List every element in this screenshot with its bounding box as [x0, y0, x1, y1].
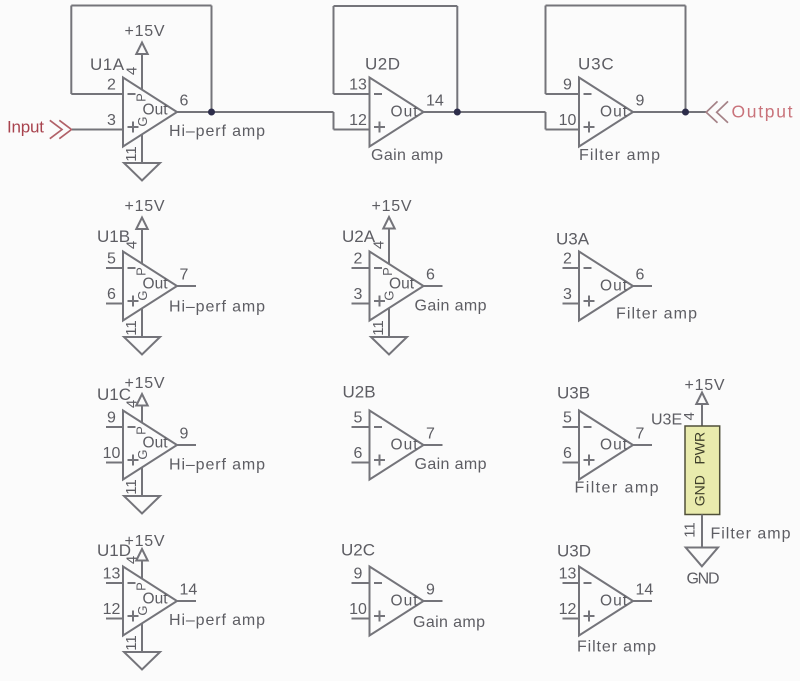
svg-text:7: 7: [180, 267, 189, 284]
svg-text:10: 10: [103, 445, 121, 462]
svg-text:U3B: U3B: [557, 384, 590, 403]
svg-text:P: P: [380, 267, 395, 276]
svg-text:Out: Out: [143, 102, 169, 119]
svg-text:Out: Out: [389, 276, 415, 293]
svg-text:P: P: [133, 426, 148, 435]
svg-text:Gain amp: Gain amp: [413, 614, 485, 631]
svg-text:U1D: U1D: [97, 541, 131, 560]
svg-text:U1B: U1B: [97, 227, 130, 246]
svg-text:P: P: [133, 267, 148, 276]
svg-text:Gain amp: Gain amp: [415, 456, 487, 473]
svg-text:11: 11: [123, 320, 140, 336]
svg-text:Output: Output: [732, 102, 793, 122]
svg-text:Filter amp: Filter amp: [711, 526, 791, 543]
svg-text:14: 14: [636, 582, 654, 599]
svg-text:GND: GND: [692, 475, 708, 506]
svg-text:U3E: U3E: [651, 412, 682, 429]
svg-text:+15V: +15V: [125, 198, 165, 215]
svg-text:Filter amp: Filter amp: [577, 639, 656, 656]
svg-text:6: 6: [563, 445, 572, 462]
svg-text:U3C: U3C: [578, 55, 614, 74]
svg-text:GND: GND: [687, 571, 720, 588]
svg-text:U2A: U2A: [342, 227, 376, 246]
svg-text:3: 3: [107, 112, 116, 129]
svg-text:Filter amp: Filter amp: [616, 306, 697, 323]
svg-text:P: P: [133, 582, 148, 591]
svg-text:3: 3: [563, 286, 572, 303]
svg-text:13: 13: [103, 566, 121, 583]
svg-text:Out: Out: [600, 278, 628, 295]
svg-text:Out: Out: [600, 104, 628, 121]
svg-text:6: 6: [107, 286, 116, 303]
svg-text:Hi–perf amp: Hi–perf amp: [169, 123, 265, 140]
svg-text:G: G: [135, 290, 150, 300]
svg-text:+15V: +15V: [685, 377, 725, 394]
svg-text:5: 5: [107, 251, 116, 268]
svg-text:9: 9: [636, 93, 645, 110]
svg-text:7: 7: [426, 426, 435, 443]
svg-text:Input: Input: [7, 118, 44, 137]
svg-text:G: G: [135, 116, 150, 126]
svg-text:11: 11: [123, 635, 140, 651]
svg-text:13: 13: [559, 566, 577, 583]
svg-text:Filter amp: Filter amp: [579, 147, 660, 164]
svg-text:Hi–perf amp: Hi–perf amp: [169, 299, 265, 316]
svg-text:Out: Out: [600, 437, 628, 454]
svg-text:9: 9: [354, 566, 363, 583]
svg-text:Out: Out: [391, 593, 419, 610]
svg-text:5: 5: [354, 410, 363, 427]
svg-text:9: 9: [180, 426, 189, 443]
svg-text:Hi–perf amp: Hi–perf amp: [169, 612, 265, 629]
svg-text:Out: Out: [391, 104, 419, 121]
svg-text:6: 6: [180, 93, 189, 110]
svg-text:9: 9: [107, 410, 116, 427]
svg-text:11: 11: [123, 479, 140, 495]
svg-text:Out: Out: [143, 435, 169, 452]
svg-text:7: 7: [636, 426, 645, 443]
svg-text:11: 11: [370, 320, 387, 336]
svg-text:G: G: [135, 449, 150, 459]
svg-text:2: 2: [563, 251, 572, 268]
svg-text:2: 2: [107, 77, 116, 94]
svg-text:G: G: [381, 290, 396, 300]
svg-text:Out: Out: [391, 437, 419, 454]
svg-text:12: 12: [103, 601, 121, 618]
svg-text:U1A: U1A: [90, 55, 125, 74]
svg-text:PWR: PWR: [692, 432, 708, 465]
svg-text:U3A: U3A: [556, 230, 590, 249]
svg-text:Out: Out: [143, 591, 169, 608]
svg-text:Filter amp: Filter amp: [575, 480, 659, 497]
svg-text:U1C: U1C: [97, 385, 131, 404]
svg-text:Gain amp: Gain amp: [415, 298, 487, 315]
svg-text:Gain amp: Gain amp: [371, 147, 443, 164]
svg-text:U2D: U2D: [365, 55, 401, 74]
svg-text:12: 12: [349, 112, 367, 129]
svg-text:14: 14: [426, 93, 444, 110]
svg-text:12: 12: [559, 601, 577, 618]
svg-text:10: 10: [349, 601, 367, 618]
svg-text:5: 5: [563, 410, 572, 427]
svg-text:+15V: +15V: [372, 198, 412, 215]
svg-text:9: 9: [563, 77, 572, 94]
svg-text:Out: Out: [143, 276, 169, 293]
svg-text:6: 6: [636, 267, 645, 284]
svg-text:6: 6: [426, 267, 435, 284]
svg-text:11: 11: [123, 146, 140, 162]
svg-text:U2B: U2B: [343, 383, 376, 402]
svg-text:P: P: [133, 93, 148, 102]
svg-text:+15V: +15V: [125, 23, 165, 40]
svg-text:4: 4: [123, 67, 140, 75]
svg-text:6: 6: [354, 445, 363, 462]
svg-text:2: 2: [354, 251, 363, 268]
svg-text:11: 11: [681, 522, 698, 538]
svg-text:13: 13: [349, 77, 367, 94]
svg-text:U3D: U3D: [557, 542, 591, 561]
svg-text:G: G: [135, 605, 150, 615]
svg-text:Out: Out: [600, 593, 628, 610]
svg-text:4: 4: [681, 412, 698, 420]
svg-text:3: 3: [354, 286, 363, 303]
svg-text:U2C: U2C: [341, 541, 375, 560]
svg-text:10: 10: [559, 112, 577, 129]
svg-text:Hi–perf amp: Hi–perf amp: [169, 457, 265, 474]
svg-text:14: 14: [180, 582, 198, 599]
svg-text:9: 9: [426, 582, 435, 599]
